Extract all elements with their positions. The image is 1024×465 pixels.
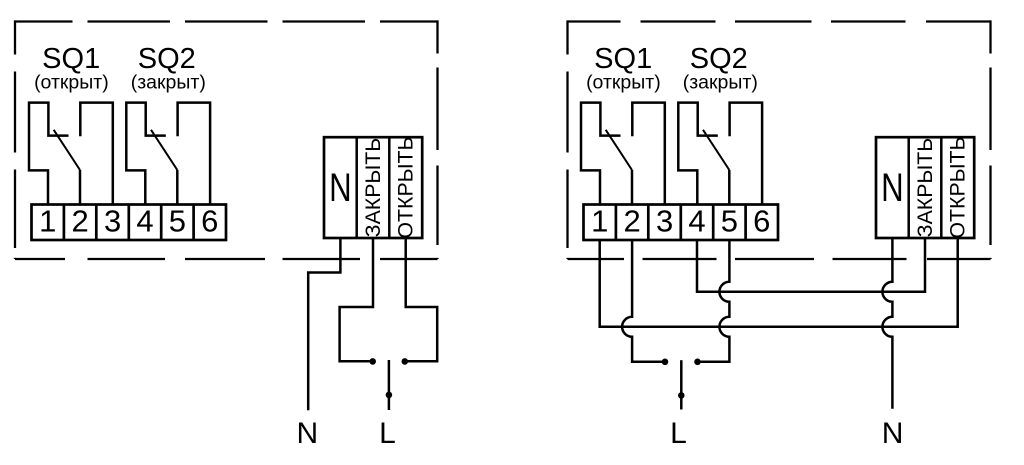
svg-text:1: 1 (39, 203, 56, 238)
svg-text:3: 3 (656, 203, 673, 238)
switch SQ1 common contact path from terminal 1 with fixed contact bar (29, 103, 69, 205)
terminal block X1 cell separators (64, 205, 194, 241)
actuator enclosure dashed border (left diagram), left edge (14, 20, 16, 259)
wire terminal 5 to switch right contact with two hops (right diagram) (698, 240, 730, 362)
svg-text:6: 6 (753, 203, 770, 238)
switch contact dot left (right diagram) (662, 359, 669, 366)
switch SQ2 contact hook from terminal 6 (178, 103, 211, 205)
switch SQ2 movable blade to terminal 5 (151, 130, 177, 170)
svg-text:1: 1 (591, 203, 608, 238)
svg-text:(открыт): (открыт) (586, 72, 661, 94)
terminal block X1 outline (left diagram) (32, 205, 227, 241)
wire terminal 4 to ЗАКРЫТЬ (right diagram) (697, 238, 925, 292)
control terminal block outline (left diagram) (324, 137, 422, 238)
svg-text:N: N (329, 165, 352, 210)
switch SQ2 contact hook from terminal 6 (right diagram) (730, 103, 763, 205)
wire ОТКРЫТЬ terminal to switch right contact (left diagram) (405, 238, 437, 361)
svg-text:ЗАКРЫТЬ: ЗАКРЫТЬ (361, 138, 385, 238)
wire blade bottom to terminal 2 (right diagram) (631, 170, 634, 205)
switch contact dot right (left diagram) (402, 358, 409, 365)
wire blade bottom to terminal 2 (79, 170, 82, 205)
svg-text:N: N (296, 417, 318, 450)
switch SQ1 contact hook from terminal 3 (80, 103, 113, 205)
svg-text:N: N (881, 165, 904, 210)
svg-text:(закрыт): (закрыт) (683, 72, 758, 94)
svg-text:SQ1: SQ1 (42, 43, 100, 75)
actuator enclosure dashed border (left diagram), right edge (436, 20, 438, 259)
switch SQ1 movable blade to terminal 2 (54, 130, 80, 170)
wire terminal 1 to ОТКРЫТЬ (right diagram) (600, 238, 958, 327)
wire N terminal to external N (left diagram) (308, 238, 340, 410)
switch SQ1 contact hook from terminal 3 (right diagram) (632, 103, 665, 205)
control terminal block separators (left diagram) (357, 137, 390, 238)
svg-text:6: 6 (201, 203, 218, 238)
switch SQ2 common contact path from terminal 4 (right diagram) (678, 103, 718, 205)
svg-text:SQ2: SQ2 (690, 43, 748, 75)
terminal block X1 outline (right diagram) (584, 205, 779, 241)
control terminal block separators (right diagram) (909, 137, 942, 238)
svg-text:ОТКРЫТЬ: ОТКРЫТЬ (946, 136, 970, 238)
switch pivot dot (right diagram) (678, 392, 685, 399)
actuator enclosure dashed border (right diagram), bottom edge (568, 258, 991, 260)
svg-text:(открыт): (открыт) (34, 72, 109, 94)
switch blade wire to L (left diagram) (388, 360, 391, 410)
svg-text:N: N (882, 417, 904, 450)
svg-text:ОТКРЫТЬ: ОТКРЫТЬ (394, 136, 418, 238)
switch SQ1 movable blade to terminal 2 (right diagram) (606, 130, 632, 170)
actuator enclosure dashed border (right diagram), left edge (566, 20, 568, 259)
switch contact dot left (left diagram) (369, 358, 376, 365)
switch blade wire to L (right diagram) (680, 360, 683, 409)
svg-text:5: 5 (721, 203, 738, 238)
actuator enclosure dashed border (left diagram), bottom edge (15, 258, 438, 260)
svg-text:4: 4 (136, 203, 153, 238)
actuator enclosure dashed border (right diagram), top edge (568, 20, 991, 22)
wire blade bottom to terminal 5 (right diagram) (728, 170, 731, 205)
svg-text:L: L (379, 417, 396, 450)
control terminal block outline (right diagram) (876, 137, 974, 238)
svg-text:ЗАКРЫТЬ: ЗАКРЫТЬ (913, 138, 937, 238)
switch SQ1 common contact path from terminal 1 (right diagram) (581, 103, 621, 205)
svg-text:5: 5 (169, 203, 186, 238)
actuator enclosure dashed border (right diagram), right edge (989, 20, 991, 259)
switch contact dot right (right diagram) (694, 359, 701, 366)
actuator enclosure dashed border (left diagram), top edge (15, 20, 438, 22)
wire blade bottom to terminal 5 (176, 170, 179, 205)
switch pivot dot (left diagram) (386, 392, 393, 399)
svg-text:SQ2: SQ2 (138, 43, 196, 75)
terminal block X1 cell separators (right diagram) (616, 205, 746, 241)
svg-text:4: 4 (688, 203, 705, 238)
svg-text:3: 3 (104, 203, 121, 238)
svg-text:L: L (670, 417, 687, 450)
svg-text:2: 2 (623, 203, 640, 238)
svg-text:2: 2 (71, 203, 88, 238)
switch SQ2 common contact path from terminal 4 with fixed contact bar (126, 103, 166, 205)
svg-text:(закрыт): (закрыт) (131, 72, 206, 94)
wire N terminal to external N with two hops (right diagram) (882, 238, 892, 409)
wire ЗАКРЫТЬ terminal to switch left contact (left diagram) (340, 238, 373, 361)
wire terminal 2 to switch left contact with hop (right diagram) (622, 240, 665, 362)
switch SQ2 movable blade to terminal 5 (right diagram) (703, 130, 729, 170)
svg-text:SQ1: SQ1 (594, 43, 652, 75)
